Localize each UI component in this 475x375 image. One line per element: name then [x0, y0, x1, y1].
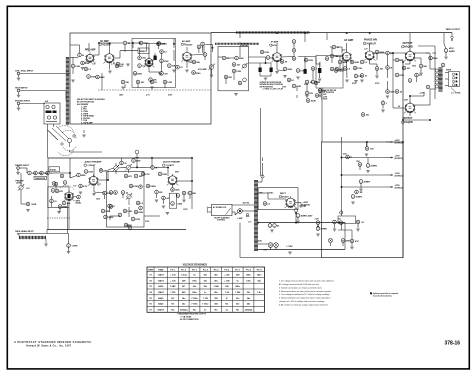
resistor R8: [176, 65, 184, 69]
resistor R62: [343, 154, 349, 159]
svg-text:270V: 270V: [183, 209, 188, 211]
wire: [393, 59, 403, 61]
svg-text:390K: 390K: [287, 69, 292, 71]
resistor R32: [386, 51, 394, 55]
note scratch filter B: [319, 89, 337, 100]
wire: [347, 43, 370, 52]
wire: [426, 52, 436, 54]
wire: [70, 57, 78, 59]
input jack J4 TUNER INPUT: [15, 165, 30, 175]
junction: [136, 167, 138, 169]
svg-text:A PHOTOFACT STANDARD INDEXED S: A PHOTOFACT STANDARD INDEXED SCHEMATIC: [14, 340, 92, 344]
svg-text:TAPE OUTPUT: TAPE OUTPUT: [446, 28, 461, 31]
svg-text:+415V: +415V: [395, 139, 401, 142]
capacitor C58: [132, 159, 141, 163]
resistor R79: [311, 67, 318, 71]
wire: [128, 207, 130, 217]
svg-text:+270V: +270V: [420, 93, 426, 95]
capacitor C31: [51, 189, 55, 193]
capacitor C22: [426, 85, 430, 89]
svg-text:7 130v: 7 130v: [202, 304, 209, 306]
wire: [295, 212, 297, 223]
svg-text:7 280: 7 280: [235, 292, 241, 294]
wire: [218, 56, 223, 58]
electrolytic C23: [444, 47, 455, 53]
resistor R56: [182, 191, 189, 195]
wire: [94, 186, 105, 193]
svg-text:47K: 47K: [59, 190, 63, 193]
svg-text:56K: 56K: [334, 56, 338, 58]
wire: [415, 53, 437, 69]
voltage readings table: [147, 267, 265, 312]
ground: [316, 234, 319, 236]
svg-text:220K: 220K: [138, 212, 143, 214]
svg-text:NC: NC: [182, 286, 185, 288]
arrow +415V: [294, 201, 310, 212]
svg-text:NC: NC: [236, 309, 239, 311]
bullet note: [370, 292, 398, 298]
resistor R49: [123, 209, 132, 213]
svg-text:120K: 120K: [167, 82, 172, 84]
resistor R94: [60, 174, 64, 178]
filter resistor R63: [356, 161, 362, 166]
capacitor C60: [128, 226, 132, 230]
ground: [92, 194, 95, 196]
resistor R88: [134, 210, 143, 214]
resistor R86: [141, 172, 150, 176]
svg-text:100K: 100K: [75, 66, 80, 68]
svg-text:EQUAL: EQUAL: [76, 202, 82, 205]
wire: [172, 175, 174, 177]
pilot lamp PL3: [274, 243, 279, 248]
resistor R6: [160, 50, 168, 54]
svg-text:10K: 10K: [370, 149, 374, 151]
svg-text:22K: 22K: [270, 57, 274, 59]
loudness control R19: [242, 63, 248, 82]
svg-text:NC: NC: [171, 304, 174, 306]
wire: [331, 243, 344, 247]
tube V13 RECT 6X4: [279, 193, 296, 208]
wire: [276, 43, 278, 47]
svg-text:12AX7: 12AX7: [158, 279, 165, 282]
wire: [312, 70, 314, 80]
on-off switch S2: [246, 213, 248, 215]
svg-text:470K: 470K: [308, 59, 313, 62]
ground: [57, 212, 60, 214]
svg-text:VOLUME: VOLUME: [198, 69, 208, 71]
wire: [377, 54, 388, 66]
resistor R51: [124, 223, 132, 227]
text 270V: [304, 84, 309, 86]
wire: [445, 52, 447, 56]
svg-text:378-16: 378-16: [445, 341, 461, 347]
ground: [26, 210, 29, 212]
junction: [139, 42, 159, 44]
wire: [101, 73, 103, 90]
resistor R50: [136, 201, 144, 205]
resistor R12: [163, 80, 172, 84]
ground: [375, 76, 378, 78]
capacitor C63: [118, 213, 122, 217]
electrolytic C40: [366, 164, 377, 168]
svg-text:20MFD: 20MFD: [364, 182, 371, 184]
wire: [20, 90, 66, 92]
resistor R89: [54, 182, 58, 186]
ground: [351, 202, 354, 204]
svg-text:820K: 820K: [239, 58, 244, 60]
wire: [271, 247, 277, 249]
wire: [148, 43, 150, 58]
junction: [295, 212, 297, 214]
svg-text:33K: 33K: [125, 82, 129, 84]
capacitor C59: [121, 191, 129, 195]
ground: [270, 230, 273, 232]
capacitor C2: [123, 41, 131, 45]
capacitor C8: [203, 53, 207, 57]
resistor R18b: [238, 81, 242, 85]
svg-text:OUTPUT: OUTPUT: [403, 42, 414, 45]
capacitor C30: [131, 217, 140, 221]
rectifier box: [258, 188, 298, 210]
dashed wire: [98, 89, 211, 91]
wire: [338, 230, 352, 246]
capacitor C65: [63, 181, 67, 185]
resistor R74: [84, 67, 92, 71]
sheet number 378-16: [445, 341, 461, 347]
junction: [205, 45, 213, 53]
resistor R33: [375, 67, 384, 71]
resistor R27: [315, 94, 319, 98]
wire: [19, 168, 27, 173]
ground: [345, 80, 348, 82]
text heater: [264, 245, 294, 252]
svg-text:† MEASURED FROM PIN #4 OF V7: † MEASURED FROM PIN #4 OF V7: [177, 313, 206, 316]
svg-text:22K: 22K: [228, 77, 232, 79]
svg-text:22K: 22K: [343, 154, 347, 156]
wire: [367, 142, 368, 164]
wire: [70, 173, 77, 178]
tone network box: [218, 44, 250, 91]
wire: [70, 150, 103, 152]
wire: [445, 73, 449, 86]
wire: [173, 50, 175, 61]
wire: [405, 60, 410, 64]
svg-text:TAPE HEAD INPUT: TAPE HEAD INPUT: [15, 230, 34, 233]
resistor R66: [356, 220, 364, 224]
svg-text:23K: 23K: [236, 275, 240, 277]
capacitor C29: [134, 174, 143, 178]
fuse F1: [237, 209, 252, 224]
ground: [381, 110, 384, 112]
wire: [184, 195, 190, 199]
ground: [172, 70, 175, 72]
capacitor C53: [149, 78, 157, 82]
wire: [369, 47, 371, 50]
resistor R24: [325, 57, 329, 61]
footer photofact: [14, 340, 92, 348]
svg-text:(SOURCE): (SOURCE): [395, 142, 403, 144]
ground: [185, 70, 188, 72]
resistor R92: [109, 205, 113, 209]
electrolytic C37: [268, 224, 280, 228]
wire: [48, 157, 192, 159]
ground: [155, 200, 165, 208]
svg-text:820K: 820K: [342, 62, 347, 64]
svg-text:4. Line voltage maintained a: 4. Line voltage maintained at 117 volts …: [279, 293, 330, 296]
junction: [402, 119, 404, 121]
ground: [67, 252, 70, 254]
svg-text:7.3BC: 7.3BC: [170, 286, 176, 288]
wire: [319, 73, 321, 78]
svg-text:150K: 150K: [236, 71, 241, 73]
output transformer T1: [435, 68, 440, 92]
wire: [349, 156, 352, 158]
resistor R57: [263, 202, 271, 206]
svg-text:56K: 56K: [423, 66, 427, 68]
svg-text:15K: 15K: [356, 161, 360, 163]
svg-text:20MFD: 20MFD: [371, 166, 378, 168]
screen comp C66: [441, 63, 445, 67]
capacitor C17: [335, 67, 344, 71]
svg-text:NC: NC: [225, 304, 228, 306]
crystal diode M1: [259, 63, 262, 76]
svg-text:EQUAL: EQUAL: [50, 168, 57, 171]
wire: [146, 43, 148, 52]
resistor R30: [353, 66, 362, 70]
svg-text:470K: 470K: [133, 185, 138, 188]
svg-text:VOLTAGE READINGS: VOLTAGE READINGS: [183, 264, 208, 267]
bass pot R48: [126, 193, 132, 205]
wire: [281, 56, 316, 59]
capacitor C13: [296, 69, 305, 73]
wire: [118, 166, 140, 169]
ground: [338, 69, 363, 83]
capacitor C8b: [201, 42, 205, 46]
svg-text:(SOURCE): (SOURCE): [395, 158, 403, 160]
resistor R70: [395, 90, 403, 94]
svg-text:150K: 150K: [88, 171, 93, 173]
ground: [365, 154, 368, 156]
svg-text:100K: 100K: [127, 211, 132, 213]
resistor R73: [76, 195, 82, 204]
resistor R47: [124, 174, 132, 178]
B+ bus wire: [342, 137, 387, 200]
svg-text:820K: 820K: [32, 204, 37, 206]
junction: [392, 52, 404, 63]
shielded cable: [236, 31, 310, 33]
wire: [184, 43, 186, 45]
ground: [283, 76, 286, 78]
junction: [265, 62, 267, 64]
ground: [81, 68, 84, 70]
capacitor C55: [360, 60, 368, 64]
wire: [374, 52, 386, 54]
svg-text:330A(v): 330A(v): [180, 308, 188, 311]
svg-text:270V: 270V: [375, 83, 380, 85]
capacitor C47: [395, 73, 404, 77]
wire: [226, 46, 240, 58]
capacitor C56: [408, 79, 412, 83]
resistor R60: [341, 239, 350, 243]
wire: [68, 234, 70, 252]
wire: [83, 130, 85, 133]
wire: [105, 195, 110, 212]
resistor R31: [360, 74, 368, 78]
wire: [109, 63, 111, 70]
wire: [359, 166, 361, 170]
resistor R5: [138, 56, 147, 60]
resistor R37: [429, 56, 438, 60]
AC interlock P1: [207, 204, 232, 221]
capacitor C27: [101, 209, 110, 213]
svg-text:AC INTERLOCK: AC INTERLOCK: [213, 206, 227, 209]
wire: [330, 47, 342, 53]
svg-text:+310V: +310V: [395, 173, 401, 175]
resistor R82: [402, 66, 411, 70]
svg-text:TUBE: TUBE: [158, 269, 164, 271]
capacitor C52: [138, 64, 146, 68]
wire: [415, 58, 422, 64]
arrow +275V source: [386, 185, 403, 189]
tube V5 6C4: [270, 41, 283, 63]
junction: [173, 43, 175, 45]
resistor R54: [162, 196, 171, 200]
svg-text:variation of ± 15% in voltage: variation of ± 15% in voltage and resist…: [279, 300, 325, 303]
resistor R3 TREBLE pot: [138, 48, 149, 54]
terminal block: [338, 211, 356, 224]
tube V2 AF AMP 1/2 12AX7: [99, 40, 115, 64]
shielded cable: [215, 43, 259, 45]
wire: [336, 56, 343, 58]
electrolytic C41: [359, 180, 370, 184]
svg-text:6AQ5: 6AQ5: [158, 303, 164, 306]
svg-text:TREBLE: TREBLE: [139, 51, 147, 53]
svg-text:+275V: +275V: [395, 185, 401, 187]
ground: [210, 75, 213, 77]
ground: [318, 79, 321, 81]
wire: [17, 230, 47, 234]
svg-text:40MFD-450V: 40MFD-450V: [301, 215, 314, 218]
ground: [108, 71, 111, 73]
svg-text:(SOURCE): (SOURCE): [395, 175, 403, 177]
wire: [232, 211, 254, 215]
svg-text:PRE AMP: PRE AMP: [85, 49, 96, 52]
resistor R11: [150, 80, 157, 84]
capacitor C35: [67, 244, 78, 248]
note scratch filter A: [260, 81, 284, 91]
resistor R78: [287, 78, 294, 82]
ground: [359, 189, 362, 191]
power transformer T2: [254, 180, 258, 251]
wire: [346, 61, 348, 78]
svg-text:Howard W. Sams & Co., Inc. 19: Howard W. Sams & Co., Inc. 1957: [26, 344, 72, 347]
svg-text:CONTROL: CONTROL: [217, 220, 225, 222]
resistor R14: [192, 60, 200, 64]
svg-text:270K: 270K: [164, 61, 169, 63]
svg-text:450V: 450V: [449, 47, 454, 50]
capacitor C10: [235, 56, 244, 60]
wire: [51, 196, 53, 207]
resistor R2: [139, 41, 148, 45]
svg-text:†† OB./CHAS: †† OB./CHAS: [180, 315, 192, 318]
resistor R65: [350, 239, 359, 243]
capacitor C32: [155, 190, 163, 194]
resistor R1: [81, 61, 90, 65]
svg-text:390K: 390K: [354, 62, 359, 64]
resistor R80: [330, 54, 338, 58]
wire: [262, 157, 264, 161]
capacitor C67: [52, 182, 56, 186]
wire: [94, 43, 100, 55]
resistor R34: [386, 66, 393, 70]
text labels: [342, 48, 368, 51]
svg-text:10K: 10K: [172, 66, 176, 68]
capacitor C64: [139, 206, 143, 210]
svg-text:6AQ5B: 6AQ5B: [405, 46, 413, 49]
svg-text:12AX7: 12AX7: [158, 274, 165, 277]
equalizer box: [34, 167, 60, 180]
svg-text:RECT: RECT: [280, 193, 287, 195]
capacitor C15: [311, 80, 320, 84]
svg-text:40MFD: 40MFD: [449, 50, 456, 53]
wire: [270, 223, 318, 227]
resistor R90: [306, 99, 316, 103]
ground: [333, 229, 360, 231]
wire: [423, 92, 425, 96]
text 270V: [375, 83, 380, 85]
svg-text:+ 185: + 185: [224, 275, 230, 277]
capacitor C48: [158, 172, 167, 176]
svg-text:+ 130: + 130: [170, 280, 176, 282]
wire: [55, 186, 57, 189]
svg-text:1MEG: 1MEG: [195, 73, 201, 75]
svg-text:1.2K: 1.2K: [315, 219, 320, 221]
text labels: [404, 66, 417, 102]
junction: [69, 172, 71, 174]
wire: [47, 233, 69, 235]
wire: [47, 158, 49, 230]
wire: [360, 184, 362, 189]
wire: [403, 119, 430, 121]
svg-text:DIAL: DIAL: [258, 240, 262, 243]
svg-text:LEVEL: LEVEL: [16, 183, 23, 185]
svg-text:PHONO INPUT: PHONO INPUT: [15, 100, 31, 102]
resistor R21: [280, 60, 288, 64]
resistor R38: [34, 171, 43, 175]
svg-text:270V: 270V: [352, 83, 357, 85]
capacitor C43: [333, 220, 341, 224]
capacitor C9: [222, 56, 230, 60]
svg-text:AC voltages measured with 1000: AC voltages measured with 1000 ohm per v…: [279, 283, 320, 286]
table footnotes: [177, 313, 206, 322]
wire: [136, 160, 138, 167]
wire: [203, 46, 212, 74]
svg-text:1MEG: 1MEG: [108, 217, 114, 219]
wire: [316, 57, 320, 65]
wire: [296, 86, 298, 98]
crystal diode M4: [318, 62, 321, 73]
selector switch box S1A: [44, 101, 60, 124]
svg-text:24: 24: [398, 105, 400, 108]
wire: [67, 202, 69, 234]
wire: [341, 200, 343, 230]
svg-text:22K: 22K: [103, 170, 107, 172]
ground: [126, 64, 129, 66]
wire: [203, 45, 205, 55]
wire: [149, 66, 160, 72]
wire: [99, 42, 157, 45]
resistor R67: [260, 50, 269, 54]
